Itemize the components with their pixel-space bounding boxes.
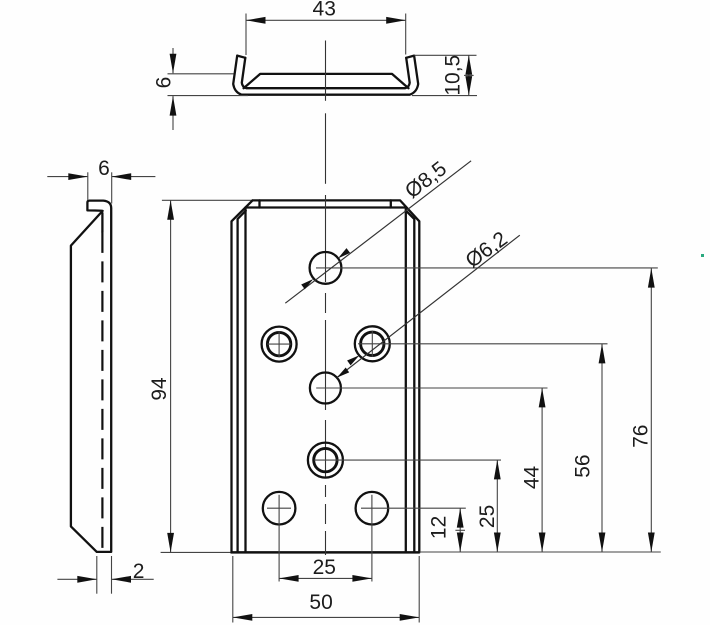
svg-text:25: 25 xyxy=(476,505,499,528)
svg-text:25: 25 xyxy=(313,556,336,579)
svg-text:2: 2 xyxy=(133,560,145,583)
svg-text:56: 56 xyxy=(571,454,594,477)
svg-text:44: 44 xyxy=(520,466,543,490)
svg-text:10,5: 10,5 xyxy=(442,55,465,96)
svg-text:12: 12 xyxy=(428,516,451,539)
svg-text:76: 76 xyxy=(629,425,652,448)
svg-text:6: 6 xyxy=(98,157,110,180)
svg-text:94: 94 xyxy=(148,377,171,401)
svg-text:43: 43 xyxy=(313,0,336,20)
svg-text:50: 50 xyxy=(309,591,332,614)
svg-text:6: 6 xyxy=(153,77,176,89)
